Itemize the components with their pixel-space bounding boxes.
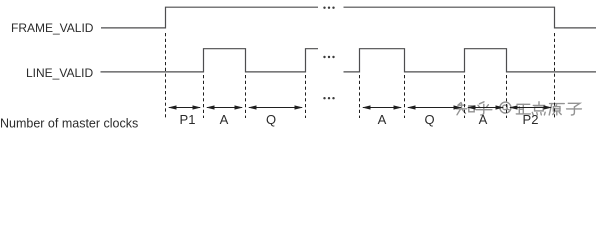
svg-text:P2: P2 (523, 112, 539, 127)
svg-text:A: A (479, 112, 488, 127)
watermark zhihu @zhengdianyuanzi (gray hand-drawn CJK strokes) (456, 102, 581, 115)
watermark char DIAN (532, 102, 545, 115)
dashed guide line at FRAME_VALID rising edge x=165 (165, 33, 167, 118)
watermark char ZI (567, 103, 582, 115)
dashed guide line x=506 (506, 75, 508, 118)
dashed guide line x=359 (359, 75, 361, 118)
dashed guide line x=245 (245, 75, 247, 118)
svg-text:FRAME_VALID: FRAME_VALID (11, 21, 94, 35)
dashed guide line x=203 (203, 75, 205, 118)
svg-text:A: A (220, 112, 229, 127)
node ellipsis dimension row break (323, 97, 334, 99)
wire LINE_VALID right segment with pulses (344, 49, 597, 72)
dashed guide line x=305 (305, 75, 307, 118)
dimension arrow A (203 to 245) (206, 105, 243, 109)
watermark char @ (500, 102, 511, 113)
svg-text:Number of master clocks: Number of master clocks (0, 117, 138, 131)
dashed guide line x=404 (404, 75, 406, 118)
node ellipsis FRAME_VALID break (323, 7, 334, 9)
watermark char YUAN (549, 104, 564, 115)
wire LINE_VALID left segment with pulses (101, 49, 319, 72)
dimension arrow A (359 to 404) (362, 105, 402, 109)
svg-text:LINE_VALID: LINE_VALID (26, 66, 93, 80)
wire FRAME_VALID right segment (344, 7, 597, 28)
dimension arrow P2 (506 to 554) (509, 105, 552, 109)
watermark char ZHENG (516, 104, 530, 114)
svg-text:Q: Q (266, 112, 276, 127)
wire FRAME_VALID left segment (101, 7, 318, 28)
dashed guide line at FRAME_VALID falling edge x=554 (554, 33, 556, 118)
dimension arrow Q (404 to 464) (407, 105, 462, 109)
node ellipsis LINE_VALID break (323, 56, 334, 58)
svg-text:A: A (378, 112, 387, 127)
dimension arrow Q (245 to 305) (248, 105, 303, 109)
watermark char ZHI (456, 103, 474, 115)
dimension arrow A (464 to 506) (467, 105, 504, 109)
svg-text:Q: Q (424, 112, 434, 127)
dimension arrow P1 (165 to 203) (168, 105, 201, 109)
dashed guide line x=464 (464, 75, 466, 118)
watermark char HU (476, 102, 492, 115)
svg-text:P1: P1 (180, 112, 196, 127)
